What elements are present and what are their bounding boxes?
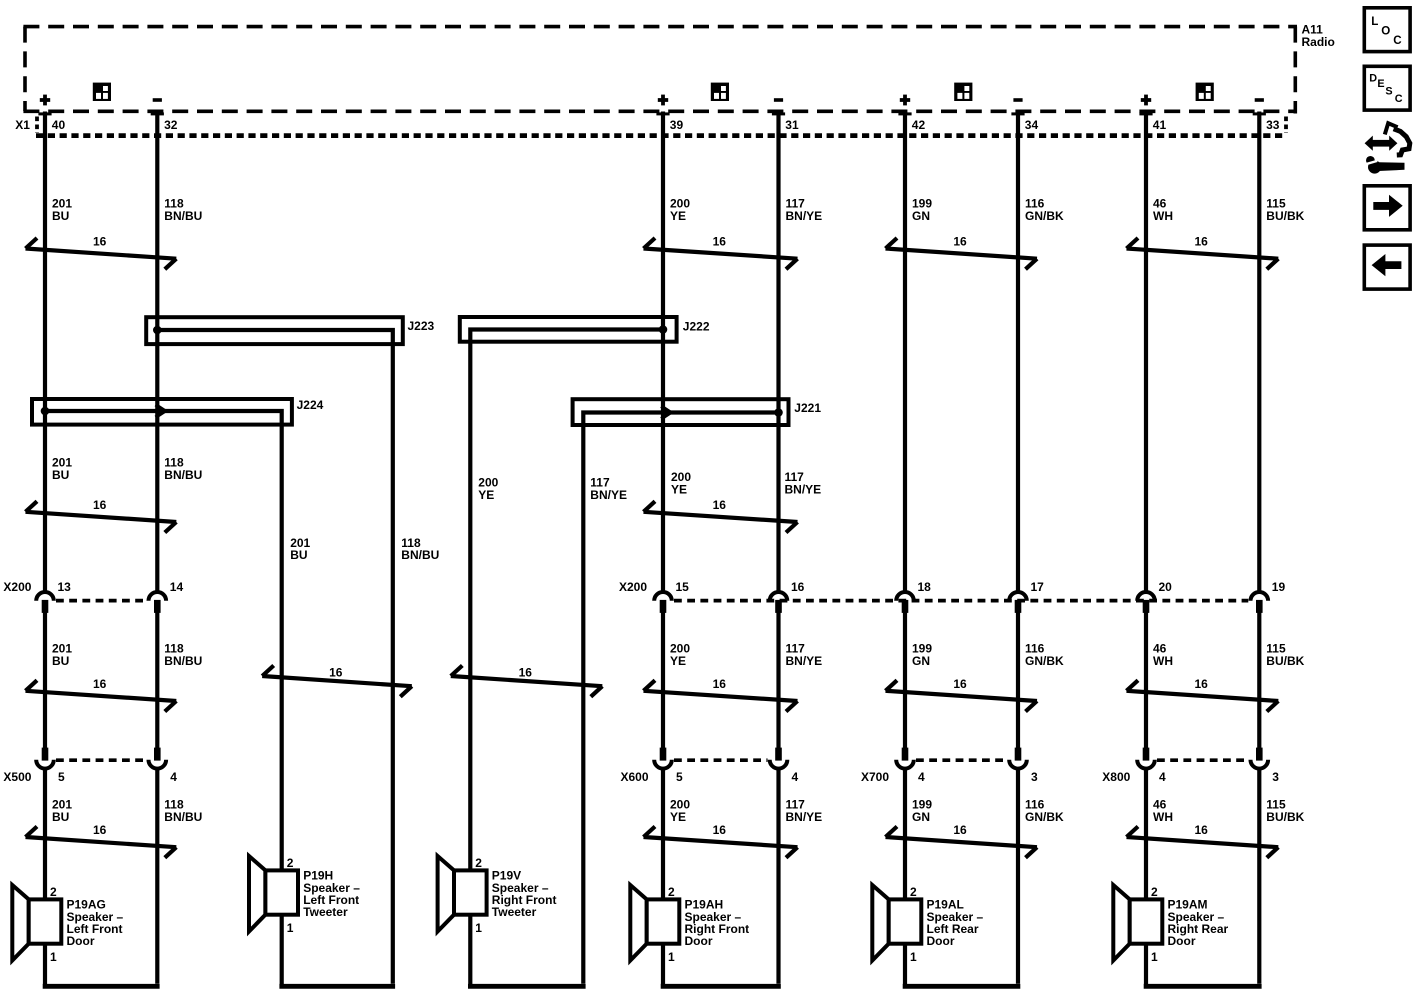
svg-text:16: 16 [1194, 235, 1208, 249]
wire 46 WH X200 to X800 [1144, 613, 1148, 749]
pin number 4 (X600) [792, 770, 799, 784]
svg-text:3: 3 [1272, 770, 1279, 784]
wire 117 BN/YE X200 to X600 [776, 613, 780, 749]
svg-text:16: 16 [93, 677, 107, 691]
wire label 199 GN (row 3) [912, 642, 932, 668]
connector X800 terminal pin 4 [1137, 748, 1155, 769]
svg-text:X200: X200 [3, 580, 31, 594]
gauge 16 mark branch pair J222/J221 [451, 666, 603, 697]
svg-text:34: 34 [1025, 118, 1039, 132]
svg-text:Door: Door [685, 934, 713, 948]
wire label 118 BN/BU (branch J223) [401, 536, 439, 562]
svg-text:BU: BU [52, 468, 69, 482]
connector X200 terminal pin 19 [1251, 592, 1269, 613]
svg-text:16: 16 [713, 823, 727, 837]
svg-text:J223: J223 [408, 319, 435, 333]
svg-text:BN/BU: BN/BU [164, 209, 202, 223]
svg-text:BU: BU [290, 548, 307, 562]
speaker P19V pin 1 label [475, 921, 482, 935]
wire label 200 YE (row 4) [670, 798, 690, 824]
svg-text:L: L [1371, 15, 1378, 28]
svg-text:4: 4 [918, 770, 925, 784]
gauge 16 mark pair 201BU/118BNBU row4 [26, 823, 177, 858]
wire 117 BN/YE (radio pin 31) X1 to X200 [776, 112, 780, 592]
wire 118 BN/BU (radio pin 32) X1 to X200 [155, 112, 159, 592]
svg-text:BU/BK: BU/BK [1266, 810, 1304, 824]
connector X200 terminal pin 14 [149, 592, 167, 613]
wire label 201 BU (row 3) [52, 642, 72, 668]
wire label 46 WH (row 3) [1153, 642, 1173, 668]
svg-text:16: 16 [713, 677, 727, 691]
junction dot J223 on wire 118 BN/BU [153, 326, 162, 335]
bottom return wire P19H [279, 984, 395, 989]
polarity + above radio pin 41 [1141, 95, 1151, 106]
speaker P19H pin 1 label [287, 921, 294, 935]
svg-text:16: 16 [713, 235, 727, 249]
svg-text:YE: YE [670, 810, 686, 824]
svg-text:BN/BU: BN/BU [164, 810, 202, 824]
wire 118 BN/BU X200 to X500 [155, 613, 159, 749]
svg-text:2: 2 [910, 885, 917, 899]
wire label 201 BU (branch J224) [290, 536, 310, 562]
wire label 115 BU/BK (row 3) [1266, 642, 1304, 668]
svg-text:1: 1 [910, 950, 917, 964]
polarity - above radio pin 32 [153, 98, 162, 102]
svg-text:16: 16 [93, 498, 107, 512]
svg-text:15: 15 [676, 580, 690, 594]
speaker P19AM pin 2 label [1151, 885, 1158, 899]
svg-text:X500: X500 [3, 770, 31, 784]
pin number 16 (X200) [791, 580, 805, 594]
connector X800 terminal pin 3 [1251, 748, 1269, 769]
svg-text:Radio: Radio [1302, 35, 1335, 49]
svg-text:3: 3 [1031, 770, 1038, 784]
svg-text:41: 41 [1153, 118, 1167, 132]
svg-text:39: 39 [670, 118, 684, 132]
svg-text:GN/BK: GN/BK [1025, 654, 1064, 668]
wire 117 BN/YE X600 to bottom bar [776, 770, 780, 984]
wire label 117 BN/YE (row 4) [786, 798, 823, 824]
speaker P19AH symbol [630, 885, 679, 961]
connector X200 terminal pin 13 [36, 592, 54, 613]
connector X1 dotted line [36, 117, 1286, 136]
svg-text:BN/YE: BN/YE [786, 209, 823, 223]
svg-text:Door: Door [67, 934, 95, 948]
svg-text:32: 32 [164, 118, 178, 132]
junction dot J224 on wire 201 BU [41, 407, 50, 416]
wire 115 BU/BK X800 to bottom bar [1257, 770, 1261, 984]
svg-text:4: 4 [792, 770, 799, 784]
speaker P19AM symbol [1113, 885, 1162, 961]
radio connector face icon group 3 [954, 83, 972, 101]
svg-text:1: 1 [50, 950, 57, 964]
svg-text:YE: YE [670, 654, 686, 668]
wire label 200 YE (row 1) [670, 197, 690, 223]
sidebar icon forward arrow box [1364, 186, 1410, 230]
label J224 [297, 398, 324, 412]
svg-text:16: 16 [953, 823, 967, 837]
wire 200 YE X600 to speaker P19AH [661, 770, 665, 900]
svg-text:WH: WH [1153, 209, 1173, 223]
connector X200 dashed tie right pairs [674, 599, 1248, 603]
wire label 200 YE (row 2) [671, 470, 691, 496]
radio pin 32 terminal tick [151, 112, 164, 115]
wire 199 GN X200 to X700 [903, 613, 907, 749]
pin number 20 (X200) [1159, 580, 1173, 594]
svg-text:J222: J222 [683, 319, 710, 333]
label P19AG text [67, 898, 124, 949]
wire 201 BU (radio pin 40) X1 to X200 [43, 112, 47, 592]
connector X800 dashed tie [1157, 758, 1248, 762]
connector X500 terminal pin 4 [149, 748, 167, 769]
label X800 [1102, 770, 1130, 784]
svg-text:BN/BU: BN/BU [401, 548, 439, 562]
wire 118 BN/BU X500 to bottom bar [155, 770, 159, 984]
sidebar icon double arrow with wrench [1364, 123, 1410, 173]
svg-text:16: 16 [791, 580, 805, 594]
pin number 17 (X200) [1031, 580, 1045, 594]
svg-text:17: 17 [1031, 580, 1045, 594]
pin number 34 [1025, 118, 1039, 132]
wire label 116 GN/BK (row 4) [1025, 798, 1064, 824]
sidebar icon back arrow box [1364, 245, 1410, 289]
speaker P19H pin 2 label [287, 856, 294, 870]
pin number 3 (X700) [1031, 770, 1038, 784]
svg-text:C: C [1395, 93, 1403, 105]
svg-text:BU: BU [52, 209, 69, 223]
speaker P19AG pin 1 label [50, 950, 57, 964]
gauge 16 mark pair 199GN/116GNBK row1 [886, 235, 1038, 270]
svg-text:2: 2 [475, 856, 482, 870]
svg-text:D: D [1369, 73, 1377, 85]
svg-text:E: E [1377, 78, 1384, 90]
label P19AM text [1168, 898, 1229, 949]
wire 200 YE X200 to X600 [661, 613, 665, 749]
speaker P19AL pin 2 label [910, 885, 917, 899]
radio pin 34 terminal tick [1011, 112, 1024, 115]
connector X200 terminal pin 20 [1137, 592, 1155, 613]
label X700 [861, 770, 889, 784]
gauge 16 mark pair 199GN/116GNBK row4 [886, 823, 1038, 858]
radio pin 39 terminal tick [656, 112, 669, 115]
svg-text:BN/YE: BN/YE [590, 488, 627, 502]
pin number 33 [1266, 118, 1280, 132]
svg-text:X200: X200 [619, 580, 647, 594]
wire 200 YE (radio pin 39) X1 to X200 [661, 112, 665, 592]
junction dot J221 on wire 117 BN/YE [774, 408, 783, 417]
svg-text:BN/YE: BN/YE [785, 482, 822, 496]
wire 201 BU X500 to speaker P19AG [43, 770, 47, 900]
gauge 16 mark pair 200YE/117BNYE row3 [644, 677, 798, 712]
wire label 118 BN/BU (row 3) [164, 642, 202, 668]
label P19V text [492, 869, 557, 920]
sidebar icon LOC box [1364, 8, 1410, 52]
wire P19AL pin 1 to bottom bar [903, 944, 907, 985]
svg-text:Door: Door [927, 934, 955, 948]
svg-text:Door: Door [1168, 934, 1196, 948]
radio connector face icon group 1 [93, 83, 111, 101]
crossover arrow J221 over wire 200 YE [661, 406, 671, 419]
sidebar icon LOC letters [1371, 15, 1402, 47]
wire P19V pin 1 to bottom bar [468, 915, 472, 985]
svg-text:GN: GN [912, 810, 930, 824]
pin number 4 (X500) [170, 770, 177, 784]
svg-text:16: 16 [93, 235, 107, 249]
svg-text:40: 40 [52, 118, 66, 132]
wire 116 GN/BK X200 to X700 [1016, 613, 1020, 749]
wire label 118 BN/BU (row 2) [164, 456, 202, 482]
component A11 Radio dashed outline box [23, 27, 1297, 114]
svg-text:BN/BU: BN/BU [164, 654, 202, 668]
pin number 32 [164, 118, 178, 132]
svg-text:2: 2 [1151, 885, 1158, 899]
svg-text:16: 16 [93, 823, 107, 837]
gauge 16 mark pair 46WH/115BUBK row3 [1127, 677, 1279, 712]
svg-text:YE: YE [478, 488, 494, 502]
connector X700 terminal pin 3 [1009, 748, 1027, 769]
label X600 [621, 770, 649, 784]
svg-text:16: 16 [1194, 677, 1208, 691]
svg-text:4: 4 [170, 770, 177, 784]
svg-text:33: 33 [1266, 118, 1280, 132]
svg-text:5: 5 [58, 770, 65, 784]
pin number 40 [52, 118, 66, 132]
pin number 41 [1153, 118, 1167, 132]
label J223 [408, 319, 435, 333]
speaker P19AM pin 1 label [1151, 950, 1158, 964]
wire label 199 GN (row 4) [912, 798, 932, 824]
bottom return wire P19AG [43, 984, 160, 989]
wire 115 BU/BK X200 to X800 [1257, 613, 1261, 749]
gauge 16 mark pair 200YE/117BNYE row1 [644, 235, 798, 270]
connector X600 terminal pin 5 [654, 748, 672, 769]
gauge 16 mark pair 46WH/115BUBK row1 [1127, 235, 1279, 270]
connector X600 terminal pin 4 [770, 748, 788, 769]
label P19H text [303, 869, 360, 920]
wire 116 GN/BK (radio pin 34) X1 to X200 [1016, 112, 1020, 592]
wire 115 BU/BK (radio pin 33) X1 to X200 [1257, 112, 1261, 592]
splice J224 line + branch wire 201 BU [45, 411, 282, 871]
connector X500 terminal pin 5 [36, 748, 54, 769]
radio pin 40 terminal tick [38, 112, 51, 115]
svg-text:WH: WH [1153, 810, 1173, 824]
polarity - above radio pin 34 [1013, 98, 1022, 102]
gauge 16 mark pair 200YE/117BNYE row2 [644, 498, 798, 533]
svg-text:2: 2 [668, 885, 675, 899]
connector X700 terminal pin 4 [896, 748, 914, 769]
svg-text:1: 1 [668, 950, 675, 964]
svg-text:18: 18 [918, 580, 932, 594]
polarity + above radio pin 39 [658, 95, 668, 106]
label X200 left [3, 580, 31, 594]
svg-text:2: 2 [50, 885, 57, 899]
svg-text:20: 20 [1159, 580, 1173, 594]
sidebar icon DESC letters [1369, 73, 1403, 106]
radio connector face icon group 4 [1196, 83, 1214, 101]
svg-text:16: 16 [953, 235, 967, 249]
svg-text:BU: BU [52, 654, 69, 668]
svg-text:4: 4 [1159, 770, 1166, 784]
svg-text:X700: X700 [861, 770, 889, 784]
splice J223 box [146, 317, 403, 344]
sidebar icon DESC box [1364, 66, 1410, 110]
connector X200 dashed tie left pair [56, 599, 146, 603]
svg-text:GN/BK: GN/BK [1025, 209, 1064, 223]
polarity - above radio pin 31 [774, 98, 783, 102]
wire label 200 YE (row 3) [670, 642, 690, 668]
wire 46 WH (radio pin 41) X1 to X200 [1144, 112, 1148, 592]
svg-text:GN: GN [912, 654, 930, 668]
wire label 199 GN (row 1) [912, 197, 932, 223]
svg-text:Tweeter: Tweeter [492, 905, 537, 919]
svg-text:31: 31 [785, 118, 799, 132]
svg-text:WH: WH [1153, 654, 1173, 668]
wire 116 GN/BK X700 to bottom bar [1016, 770, 1020, 984]
wire label 46 WH (row 4) [1153, 798, 1173, 824]
svg-text:42: 42 [912, 118, 926, 132]
wire label 115 BU/BK (row 1) [1266, 197, 1304, 223]
pin number 19 (X200) [1272, 580, 1286, 594]
svg-text:5: 5 [676, 770, 683, 784]
svg-text:X600: X600 [621, 770, 649, 784]
gauge 16 mark pair 201BU/118BNBU row1 [26, 235, 177, 270]
gauge 16 mark pair 46WH/115BUBK row4 [1127, 823, 1279, 858]
label X1 [15, 118, 30, 132]
gauge 16 mark pair 201BU/118BNBU row3 [26, 677, 177, 712]
gauge 16 mark pair 199GN/116GNBK row3 [886, 677, 1038, 712]
speaker P19AG symbol [12, 885, 61, 961]
label X500 [3, 770, 31, 784]
wire label 118 BN/BU (row 4) [164, 798, 202, 824]
svg-text:GN/BK: GN/BK [1025, 810, 1064, 824]
label P19AL text [927, 898, 984, 949]
svg-text:2: 2 [287, 856, 294, 870]
speaker P19H symbol [249, 856, 298, 932]
pin number 15 (X200) [676, 580, 690, 594]
speaker P19V pin 2 label [475, 856, 482, 870]
svg-text:J224: J224 [297, 398, 324, 412]
wire label 201 BU (row 2) [52, 456, 72, 482]
crossover arrow J224 over wire 118 BN/BU [156, 405, 166, 418]
pin number 42 [912, 118, 926, 132]
splice J222 box [460, 317, 677, 342]
wire P19AH pin 1 to bottom bar [661, 944, 665, 985]
speaker P19V symbol [438, 856, 487, 932]
splice J221 line + branch wire 117 BN/YE [583, 413, 778, 984]
label A11 Radio [1302, 23, 1335, 49]
svg-text:16: 16 [713, 498, 727, 512]
svg-text:YE: YE [671, 482, 687, 496]
radio pin 41 terminal tick [1139, 112, 1152, 115]
pin number 5 (X500) [58, 770, 65, 784]
gauge 16 mark pair 201BU/118BNBU row2 [26, 498, 177, 533]
polarity + above radio pin 42 [900, 95, 910, 106]
svg-text:S: S [1385, 86, 1392, 98]
radio pin 31 terminal tick [772, 112, 785, 115]
svg-text:13: 13 [58, 580, 72, 594]
svg-text:16: 16 [329, 666, 343, 680]
svg-text:YE: YE [670, 209, 686, 223]
pin number 4 (X800) [1159, 770, 1166, 784]
wire 201 BU X200 to X500 [43, 613, 47, 749]
svg-text:J221: J221 [794, 401, 821, 415]
gauge 16 mark branch pair J224/J223 [262, 666, 412, 697]
connector X200 terminal pin 16 [770, 592, 788, 613]
pin number 14 (X200) [170, 580, 184, 594]
splice J223 line + branch wire 118 BN/BU [157, 330, 392, 984]
wire 199 GN X700 to speaker P19AL [903, 770, 907, 900]
svg-text:C: C [1393, 34, 1402, 47]
svg-text:BU: BU [52, 810, 69, 824]
pin number 39 [670, 118, 684, 132]
svg-text:GN: GN [912, 209, 930, 223]
speaker P19AG pin 2 label [50, 885, 57, 899]
connector X700 dashed tie [916, 758, 1007, 762]
svg-text:Tweeter: Tweeter [303, 905, 348, 919]
wire label 117 BN/YE (row 3) [786, 642, 823, 668]
svg-text:X800: X800 [1102, 770, 1130, 784]
wire label 115 BU/BK (row 4) [1266, 798, 1304, 824]
wire P19H pin 1 to bottom bar [280, 915, 284, 985]
svg-text:1: 1 [287, 921, 294, 935]
junction dot J222 on wire 200 YE [659, 325, 668, 334]
label J221 [794, 401, 821, 415]
pin number 4 (X700) [918, 770, 925, 784]
wire label 201 BU (row 1) [52, 197, 72, 223]
speaker P19AL symbol [872, 885, 921, 961]
svg-text:BU/BK: BU/BK [1266, 209, 1304, 223]
polarity - above radio pin 33 [1255, 98, 1264, 102]
wire label 200 YE (branch J222) [478, 476, 498, 502]
speaker P19AH pin 2 label [668, 885, 675, 899]
pin number 3 (X800) [1272, 770, 1279, 784]
wire label 117 BN/YE (row 1) [786, 197, 823, 223]
splice J222 line + branch wire 200 YE [470, 330, 663, 871]
speaker P19AL pin 1 label [910, 950, 917, 964]
wire 199 GN (radio pin 42) X1 to X200 [903, 112, 907, 592]
svg-text:19: 19 [1272, 580, 1286, 594]
svg-text:16: 16 [1194, 823, 1208, 837]
gauge 16 mark pair 200YE/117BNYE row4 [644, 823, 798, 858]
bottom return wire P19V [468, 984, 586, 989]
svg-text:O: O [1381, 24, 1390, 37]
svg-text:BN/BU: BN/BU [164, 468, 202, 482]
wire P19AM pin 1 to bottom bar [1144, 944, 1148, 985]
wire label 201 BU (row 4) [52, 798, 72, 824]
splice J221 box [573, 399, 789, 425]
wire label 117 BN/YE (branch J221) [590, 476, 627, 502]
connector X200 terminal pin 15 [654, 592, 672, 613]
wire label 116 GN/BK (row 3) [1025, 642, 1064, 668]
radio pin 33 terminal tick [1253, 112, 1266, 115]
wire 46 WH X800 to speaker P19AM [1144, 770, 1148, 900]
pin number 5 (X600) [676, 770, 683, 784]
svg-text:16: 16 [519, 666, 533, 680]
connector X500 dashed tie [56, 758, 146, 762]
pin number 31 [785, 118, 799, 132]
splice J224 box [32, 399, 292, 425]
bottom return wire P19AH [661, 984, 781, 989]
svg-text:16: 16 [953, 677, 967, 691]
connector X200 terminal pin 18 [896, 592, 914, 613]
bottom return wire P19AL [903, 984, 1021, 989]
radio connector face icon group 2 [711, 83, 729, 101]
label J222 [683, 319, 710, 333]
connector X600 dashed tie [674, 758, 768, 762]
pin number 13 (X200) [58, 580, 72, 594]
wire label 116 GN/BK (row 1) [1025, 197, 1064, 223]
speaker P19AH pin 1 label [668, 950, 675, 964]
